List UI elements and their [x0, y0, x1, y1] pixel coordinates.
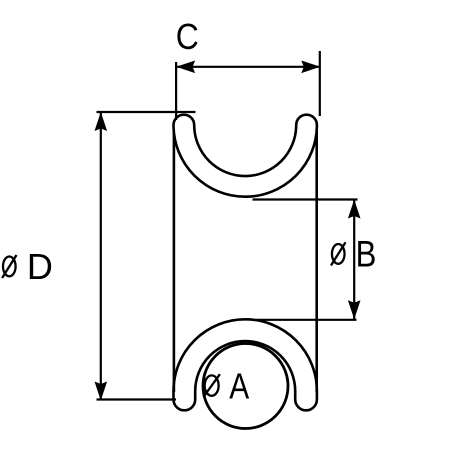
label diameter symbol of A: [203, 374, 220, 397]
dim C arrowhead right: [301, 61, 320, 74]
dim D line: [100, 112, 102, 401]
ring right wall: [315, 125, 318, 392]
svg-text:C: C: [176, 17, 199, 57]
dim D extension line bottom: [97, 398, 177, 400]
dim D arrowhead up: [95, 112, 108, 131]
dim B arrowhead down: [348, 300, 361, 319]
top groove band (thick U with round end caps): [173, 115, 316, 197]
dim B arrowhead up: [348, 200, 361, 219]
dim B extension line bottom: [256, 319, 357, 321]
label diameter symbol of D: [2, 255, 16, 278]
dim B extension line top: [253, 198, 358, 200]
label C: [176, 17, 199, 57]
label diameter symbol of B: [331, 242, 346, 265]
circle A (bore): [203, 344, 288, 429]
dim C extension line right: [319, 51, 321, 116]
dim D arrowhead down: [95, 382, 108, 401]
dim C extension line left: [175, 62, 177, 120]
dim B line: [353, 200, 355, 320]
svg-text:D: D: [27, 246, 53, 287]
svg-text:A: A: [229, 367, 250, 407]
label B: [356, 234, 377, 275]
ring left wall: [173, 125, 176, 392]
dim C line: [176, 66, 320, 68]
bottom arch band (thick inverted U with round end caps): [174, 319, 317, 410]
label A: [229, 367, 250, 407]
dim C arrowhead left: [176, 61, 195, 74]
svg-text:B: B: [356, 234, 377, 275]
dim D extension line top: [97, 111, 196, 113]
label D: [27, 246, 53, 287]
